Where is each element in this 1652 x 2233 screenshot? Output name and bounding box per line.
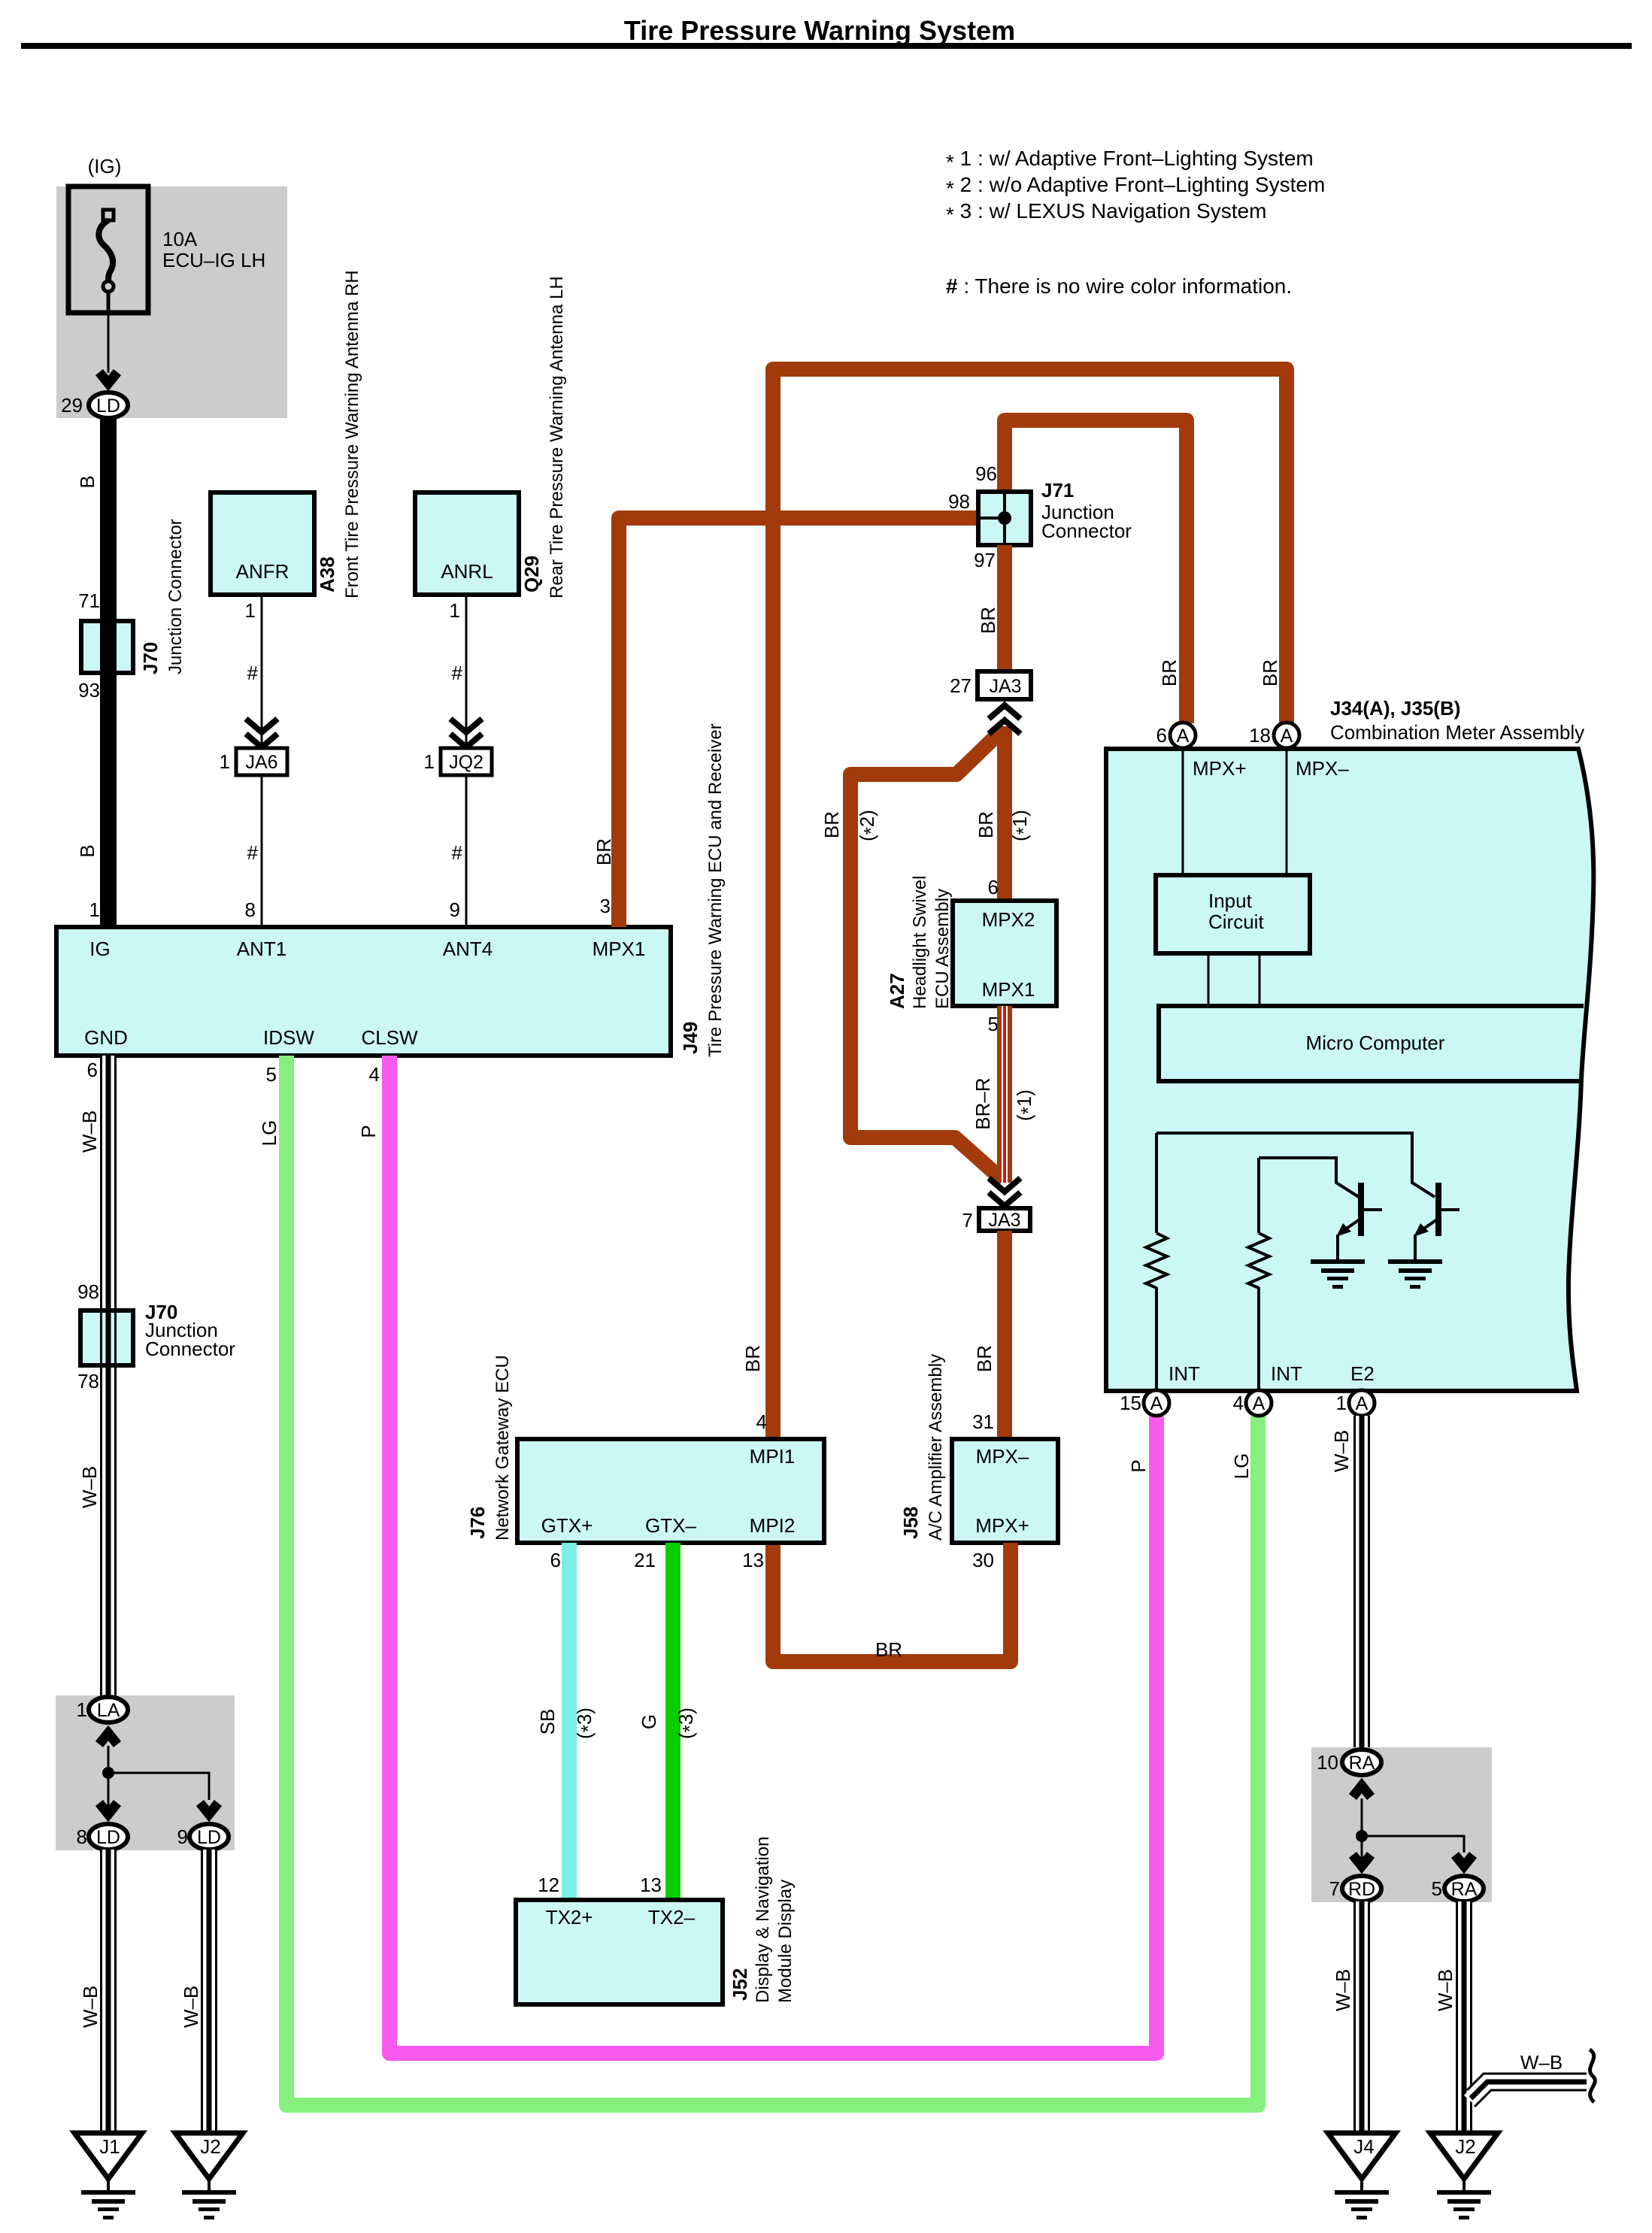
svg-text:LD: LD — [197, 1827, 221, 1848]
wire P from CLSW to meter INT — [390, 1056, 1156, 2053]
antenna Q29 ANRL box — [415, 492, 519, 595]
svg-text:BR: BR — [973, 1345, 996, 1372]
arrow into LD8 — [99, 1803, 117, 1814]
svg-text:JQ2: JQ2 — [449, 752, 483, 773]
svg-text:ANRL: ANRL — [441, 560, 493, 583]
pin A (1) — [1349, 1390, 1375, 1416]
ground J4 — [1328, 2133, 1396, 2219]
svg-text:MPX–: MPX– — [976, 1445, 1029, 1468]
meter J34(A) J35(B) Combination Meter Assembly body — [1106, 749, 1593, 1391]
svg-text:A: A — [1150, 1393, 1163, 1414]
wire W-B RD to J4 — [1353, 1901, 1370, 2133]
svg-text:JA3: JA3 — [989, 676, 1021, 697]
svg-text:# : There is no wire color inf: # : There is no wire color information. — [946, 274, 1292, 298]
svg-text:W–B: W–B — [1434, 1969, 1456, 2011]
svg-text:J52: J52 — [729, 1968, 751, 2001]
svg-text:MPX1: MPX1 — [982, 978, 1035, 1001]
svg-text:29: 29 — [61, 394, 83, 417]
svg-text:ECU Assembly: ECU Assembly — [932, 889, 953, 1009]
svg-text:93: 93 — [78, 679, 100, 701]
svg-text:W–B: W–B — [78, 1110, 101, 1153]
ground J2 — [175, 2133, 243, 2219]
connector JA3 (27) — [978, 671, 1031, 699]
svg-text:IG: IG — [89, 938, 110, 960]
svg-text:A: A — [1177, 726, 1190, 747]
title — [21, 15, 1632, 49]
svg-text:JA3: JA3 — [988, 1210, 1020, 1231]
block Micro Computer — [1159, 1006, 1584, 1081]
svg-text:6: 6 — [87, 1059, 98, 1081]
wire break squiggle — [1590, 2050, 1595, 2102]
svg-text:Micro Computer: Micro Computer — [1306, 1032, 1445, 1054]
wire BR MPX1 to J71 pin 98 — [619, 518, 976, 927]
svg-text:(*3): (*3) — [674, 1707, 701, 1739]
svg-text:LG: LG — [258, 1120, 280, 1147]
svg-text:31: 31 — [972, 1410, 994, 1433]
svg-text:P: P — [1127, 1459, 1150, 1472]
svg-text:6: 6 — [988, 876, 999, 898]
wire BR J71 pin 96 to meter MPX+ — [1005, 420, 1187, 723]
svg-text:5: 5 — [988, 1013, 999, 1035]
block Input Circuit — [1156, 875, 1310, 953]
svg-text:LG: LG — [1230, 1453, 1253, 1480]
svg-text:10A: 10A — [162, 228, 198, 250]
svg-text:3: 3 — [600, 895, 611, 917]
svg-text:Module Display: Module Display — [775, 1880, 796, 2003]
svg-text:ECU–IG LH: ECU–IG LH — [162, 249, 265, 271]
transistor Q2 — [1414, 1183, 1460, 1259]
ECU A27 Headlight Swivel ECU Assembly — [953, 901, 1056, 1006]
svg-text:78: 78 — [77, 1370, 99, 1392]
svg-text:98: 98 — [948, 490, 970, 513]
svg-text:MPX+: MPX+ — [1193, 757, 1247, 780]
ground internal Q1 — [1311, 1259, 1365, 1289]
svg-text:J58: J58 — [899, 1507, 922, 1539]
wire SB GTX+ to TX2+ — [562, 1543, 577, 1900]
svg-text:TX2–: TX2– — [648, 1906, 696, 1928]
connector JA6 — [236, 748, 287, 775]
svg-text:W–B: W–B — [79, 1986, 102, 2028]
wire BR-R A27 MPX1 to JA3 — [997, 1006, 1012, 1183]
svg-text:12: 12 — [538, 1874, 559, 1896]
svg-text:JA6: JA6 — [245, 752, 277, 773]
svg-text:GTX+: GTX+ — [541, 1514, 593, 1537]
wire ANRL to JQ2 to ANT4 — [465, 595, 468, 927]
wire MPX+ to input circuit — [1182, 749, 1184, 875]
junction connector J70 (upper) — [81, 621, 133, 673]
svg-text:MPX1: MPX1 — [593, 938, 646, 960]
svg-text:MPX2: MPX2 — [982, 908, 1035, 931]
connector JA3 (7) — [979, 1208, 1030, 1231]
legend notes — [946, 147, 1325, 298]
ground internal Q2 — [1388, 1259, 1442, 1289]
svg-text:A: A — [1253, 1393, 1266, 1414]
connector LD (8) — [89, 1824, 128, 1850]
wire BR trunk to J76 MPI1 — [773, 369, 1287, 1439]
svg-text:A/C Amplifier Assembly: A/C Amplifier Assembly — [926, 1354, 946, 1541]
svg-text:Network Gateway ECU: Network Gateway ECU — [493, 1355, 513, 1541]
fuse 10A ECU-IG LH — [68, 186, 148, 313]
svg-text:B: B — [76, 844, 99, 857]
node IG: gray highlight block for fuse — [56, 186, 287, 418]
svg-text:30: 30 — [972, 1549, 994, 1571]
svg-text:GND: GND — [84, 1026, 128, 1049]
svg-text:#: # — [452, 841, 463, 864]
chevron arrows into JA3 lower — [989, 1178, 1020, 1192]
connector LD (29) — [89, 392, 128, 418]
svg-text:INT: INT — [1271, 1362, 1302, 1385]
chevron arrows into JA6 — [246, 719, 277, 732]
svg-text:* 3 : w/ LEXUS Navigation Syst: * 3 : w/ LEXUS Navigation System — [946, 199, 1266, 226]
svg-text:4: 4 — [369, 1063, 380, 1086]
wire fuse to connector — [108, 313, 110, 373]
svg-text:J34(A), J35(B): J34(A), J35(B) — [1330, 697, 1460, 720]
svg-text:1: 1 — [77, 1698, 87, 1721]
arrow into RA — [1353, 1786, 1371, 1797]
wire B (black) LD to J49 IG — [100, 417, 117, 927]
svg-text:INT: INT — [1169, 1362, 1200, 1385]
svg-text:BR: BR — [977, 607, 999, 634]
pin A (6) — [1170, 723, 1196, 748]
connector LD (9) — [189, 1824, 229, 1850]
svg-text:P: P — [357, 1125, 380, 1138]
wire input circuit to micro computer — [1208, 953, 1210, 1006]
wire input circuit to micro computer — [1259, 953, 1261, 1006]
svg-text:J1: J1 — [99, 2135, 120, 2158]
wire W-B LD9 to J2 — [201, 1850, 217, 2133]
svg-text:* 2 : w/o Adaptive Front–Light: * 2 : w/o Adaptive Front–Lighting System — [946, 173, 1325, 200]
svg-text:RD: RD — [1348, 1879, 1375, 1900]
svg-text:LD: LD — [96, 395, 120, 417]
svg-text:W–B: W–B — [1332, 1969, 1354, 2011]
svg-text:A27: A27 — [886, 973, 908, 1009]
svg-text:BR–R: BR–R — [971, 1077, 994, 1129]
svg-text:J76: J76 — [466, 1507, 489, 1539]
svg-text:J49: J49 — [679, 1022, 702, 1054]
svg-text:(*1): (*1) — [1013, 1089, 1039, 1121]
svg-text:(*1): (*1) — [1008, 810, 1035, 841]
ground J1 — [74, 2133, 142, 2219]
svg-text:7: 7 — [962, 1209, 973, 1232]
svg-text:96: 96 — [975, 462, 997, 485]
svg-text:W–B: W–B — [78, 1466, 101, 1508]
svg-text:MPI2: MPI2 — [750, 1514, 796, 1537]
wire splice LA to LD8/LD9 — [108, 1746, 209, 1806]
wire BR JA3 to A27 MPX2 — [997, 726, 1012, 901]
ECU J49 Tire Pressure Warning ECU and Receiver — [56, 927, 671, 1056]
svg-text:ANT1: ANT1 — [237, 938, 286, 960]
resistor R1 — [1146, 1133, 1167, 1391]
svg-text:(IG): (IG) — [88, 155, 122, 177]
svg-text:Connector: Connector — [145, 1338, 235, 1360]
svg-text:98: 98 — [77, 1280, 99, 1303]
wire LG from IDSW to meter INT — [286, 1056, 1258, 2105]
svg-text:BR: BR — [1259, 659, 1281, 686]
svg-text:BR: BR — [1158, 659, 1181, 686]
svg-text:7: 7 — [1329, 1877, 1340, 1900]
svg-text:Junction Connector: Junction Connector — [165, 519, 186, 674]
connector RA (10) — [1342, 1750, 1381, 1775]
amplifier J58 A/C Amplifier Assembly — [952, 1439, 1058, 1543]
chevron arrows into JA3 — [989, 705, 1020, 719]
svg-text:Input: Input — [1208, 889, 1253, 912]
svg-text:Rear Tire Pressure Warning Ant: Rear Tire Pressure Warning Antenna LH — [547, 276, 567, 598]
connector RD (7) — [1342, 1876, 1381, 1901]
svg-text:MPX–: MPX– — [1296, 757, 1349, 780]
svg-text:13: 13 — [742, 1549, 764, 1571]
display J52 Display and Navigation Module Display — [516, 1900, 723, 2004]
svg-text:1: 1 — [450, 599, 460, 622]
svg-text:27: 27 — [950, 674, 971, 697]
svg-text:#: # — [247, 662, 259, 684]
svg-text:GTX–: GTX– — [645, 1514, 696, 1537]
svg-text:MPX+: MPX+ — [975, 1514, 1029, 1537]
svg-text:15: 15 — [1120, 1392, 1141, 1414]
svg-text:LA: LA — [97, 1700, 120, 1721]
svg-text:(*2): (*2) — [856, 810, 882, 841]
chevron arrows into JQ2 — [450, 719, 482, 732]
svg-text:E2: E2 — [1350, 1362, 1375, 1385]
gray block ground splice left — [56, 1695, 235, 1850]
svg-text:1: 1 — [245, 599, 256, 622]
svg-text:5: 5 — [266, 1063, 277, 1086]
svg-text:W–B: W–B — [1520, 2051, 1563, 2074]
arrow into RD — [1353, 1855, 1371, 1866]
wire resistor R1 to transistor Q2 collector — [1156, 1133, 1435, 1197]
svg-text:1: 1 — [220, 750, 230, 773]
svg-text:13: 13 — [640, 1874, 662, 1896]
svg-text:RA: RA — [1451, 1879, 1478, 1900]
wire W-B E2 to RA — [1353, 1416, 1370, 1750]
svg-text:18: 18 — [1249, 724, 1271, 747]
connector LA (1) — [89, 1697, 128, 1722]
arrow into RA (5) — [1455, 1855, 1473, 1866]
svg-text:1: 1 — [89, 898, 100, 921]
connector JQ2 — [441, 748, 492, 775]
svg-text:10: 10 — [1317, 1751, 1338, 1774]
svg-text:#: # — [452, 662, 463, 684]
svg-text:8: 8 — [77, 1825, 87, 1848]
pin A (15) — [1144, 1390, 1169, 1416]
wire MPX- to input circuit — [1286, 749, 1288, 875]
wire ANFR to JA6 to ANT1 — [261, 595, 263, 927]
svg-text:A: A — [1356, 1393, 1369, 1414]
svg-text:A: A — [1281, 726, 1293, 747]
svg-text:J4: J4 — [1353, 2135, 1374, 2158]
svg-text:BR: BR — [820, 811, 843, 838]
wire splice RA to RD/RA — [1362, 1798, 1464, 1859]
svg-text:IDSW: IDSW — [263, 1026, 314, 1049]
junction connector J71 — [978, 492, 1031, 545]
connector RA (5) — [1444, 1876, 1484, 1901]
svg-text:LD: LD — [96, 1827, 120, 1848]
svg-text:1: 1 — [424, 750, 435, 773]
svg-text:Circuit: Circuit — [1208, 910, 1264, 933]
wire W-B from GND to LA — [100, 1056, 117, 1697]
svg-text:W–B: W–B — [180, 1986, 202, 2028]
wire BR J71 to JA3 — [997, 545, 1012, 671]
gray block ground splice right — [1311, 1747, 1492, 1902]
arrow into LD — [99, 372, 117, 383]
svg-text:1: 1 — [1336, 1392, 1347, 1414]
svg-text:Combination Meter Assembly: Combination Meter Assembly — [1330, 721, 1584, 744]
wire W-B branch stub — [1467, 2074, 1587, 2107]
svg-text:Front Tire Pressure Warning An: Front Tire Pressure Warning Antenna RH — [342, 270, 362, 598]
svg-text:G: G — [638, 1714, 660, 1729]
svg-text:J70: J70 — [139, 642, 162, 674]
svg-text:TX2+: TX2+ — [546, 1906, 593, 1928]
svg-text:Tire Pressure Warning ECU and: Tire Pressure Warning ECU and Receiver — [705, 723, 726, 1057]
svg-text:9: 9 — [177, 1825, 188, 1848]
svg-text:9: 9 — [450, 898, 460, 921]
svg-text:J2: J2 — [200, 2135, 220, 2158]
svg-text:5: 5 — [1432, 1877, 1442, 1900]
svg-text:MPI1: MPI1 — [750, 1445, 796, 1468]
svg-text:ANT4: ANT4 — [443, 938, 493, 960]
ground J2 right — [1430, 2133, 1498, 2219]
svg-text:BR: BR — [875, 1638, 902, 1661]
svg-text:6: 6 — [550, 1549, 561, 1571]
transistor Q1 — [1336, 1183, 1382, 1259]
wire BR J58 MPX+ to J76 MPI2 — [773, 1543, 1011, 1662]
svg-text:#: # — [247, 841, 259, 864]
arrow into LA — [99, 1733, 117, 1744]
arrow into LD9 — [200, 1803, 218, 1814]
pin A (18) — [1274, 723, 1299, 748]
svg-text:Q29: Q29 — [520, 556, 543, 592]
svg-text:ANFR: ANFR — [236, 560, 289, 583]
wire W-B RA to J2 — [1456, 1901, 1472, 2133]
svg-text:SB: SB — [536, 1709, 559, 1735]
wire W-B LD8 to J1 — [100, 1850, 117, 2133]
junction dot — [102, 1767, 114, 1779]
svg-text:71: 71 — [78, 589, 100, 612]
svg-text:A38: A38 — [316, 556, 338, 592]
svg-text:Connector: Connector — [1041, 520, 1132, 542]
wire BR bypass (*2) — [850, 730, 1003, 1180]
junction dot — [1356, 1830, 1368, 1842]
pin A (4) — [1246, 1390, 1272, 1416]
wire resistor R2 to transistor Q1 collector — [1259, 1158, 1359, 1197]
svg-text:6: 6 — [1156, 724, 1167, 747]
svg-text:97: 97 — [974, 549, 996, 571]
svg-text:B: B — [76, 475, 99, 488]
svg-text:4: 4 — [1233, 1392, 1244, 1414]
svg-text:W–B: W–B — [1330, 1430, 1353, 1472]
junction connector J70 (lower) — [80, 1310, 133, 1365]
svg-text:Display & Navigation: Display & Navigation — [753, 1837, 773, 2003]
svg-text:BR: BR — [741, 1345, 764, 1372]
gateway J76 Network Gateway ECU — [517, 1439, 824, 1543]
svg-text:RA: RA — [1349, 1753, 1375, 1774]
svg-text:BR: BR — [593, 838, 615, 865]
resistor R2 — [1248, 1158, 1269, 1391]
antenna A38 ANFR box — [211, 492, 314, 595]
svg-text:4: 4 — [756, 1410, 767, 1433]
svg-text:Headlight Swivel: Headlight Swivel — [910, 876, 930, 1009]
svg-text:21: 21 — [634, 1549, 656, 1571]
wire BR JA3 to J58 MPX- — [997, 1231, 1012, 1439]
svg-text:8: 8 — [245, 898, 256, 921]
svg-text:J71: J71 — [1041, 479, 1074, 501]
svg-text:* 1 : w/ Adaptive Front–Lighti: * 1 : w/ Adaptive Front–Lighting System — [946, 147, 1314, 174]
svg-text:(*3): (*3) — [573, 1707, 599, 1739]
svg-text:BR: BR — [975, 811, 997, 838]
svg-text:CLSW: CLSW — [361, 1026, 418, 1049]
svg-text:J2: J2 — [1455, 2135, 1475, 2158]
svg-text:Tire Pressure Warning System: Tire Pressure Warning System — [624, 15, 1015, 46]
wire G GTX- to TX2- — [665, 1543, 681, 1900]
